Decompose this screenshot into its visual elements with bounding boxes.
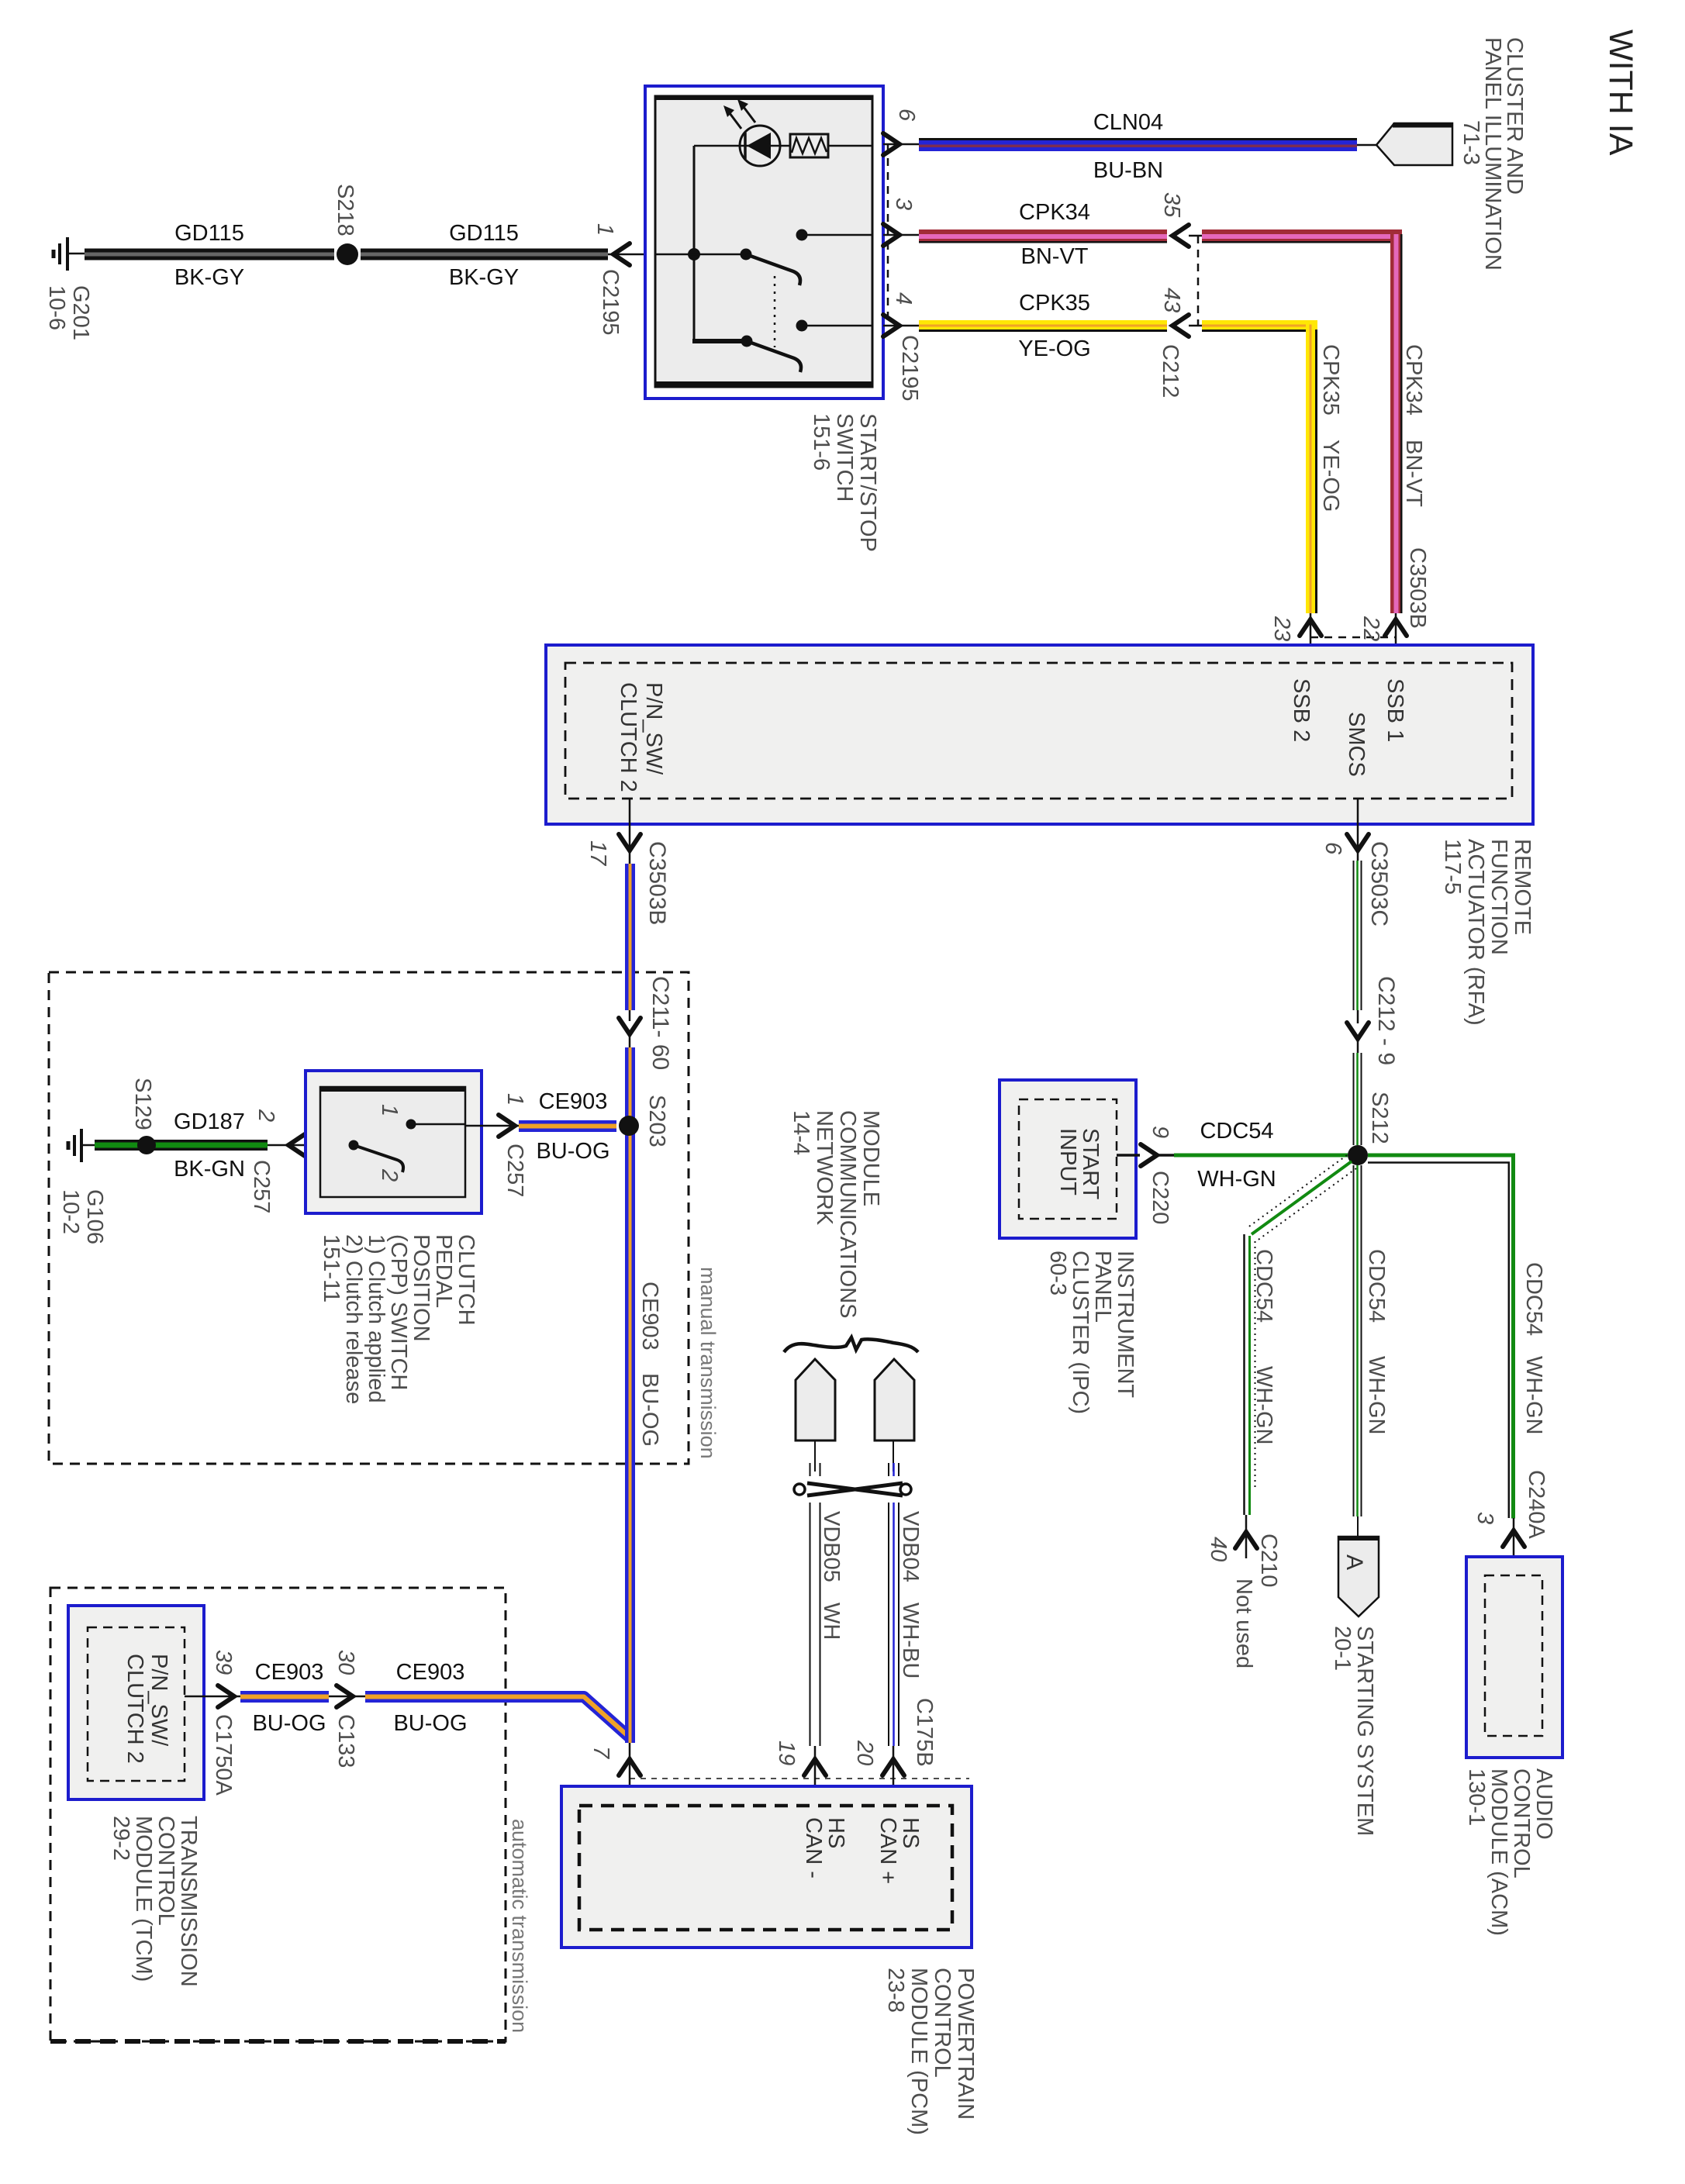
- label BK-GY B: [449, 265, 519, 290]
- wire internal left branch: [692, 146, 748, 341]
- inline connector C133 pin30 arrow: [329, 1685, 365, 1707]
- label CE903 h: [539, 1089, 608, 1114]
- svg-text:SSB 1: SSB 1: [1383, 678, 1407, 742]
- label C2195 left: [598, 269, 623, 335]
- svg-text:C133: C133: [333, 1714, 358, 1768]
- label pin 17: [585, 840, 610, 867]
- svg-text:23-8: 23-8: [883, 1968, 908, 2013]
- ground G201: [54, 237, 85, 271]
- clutch pedal position switch box: [306, 1071, 482, 1213]
- svg-text:(CPP) SWITCH: (CPP) SWITCH: [386, 1234, 411, 1390]
- mechanical link dotted: [774, 276, 776, 347]
- svg-text:2: 2: [254, 1109, 278, 1122]
- splice S203: [619, 1116, 639, 1136]
- svg-text:MODULE (TCM): MODULE (TCM): [131, 1816, 156, 1982]
- wire CE903 BU-OG segment A: [240, 1691, 329, 1703]
- svg-text:BU-OG: BU-OG: [536, 1139, 609, 1164]
- connector C2195 dashed line: [887, 144, 889, 326]
- pin 6 arrow: [883, 133, 919, 155]
- label REMOTE FUNCTION ACTUATOR (RFA) 117-5: [1440, 839, 1535, 1026]
- svg-text:TRANSMISSION: TRANSMISSION: [176, 1816, 201, 1987]
- svg-text:117-5: 117-5: [1440, 839, 1465, 895]
- svg-text:POWERTRAIN: POWERTRAIN: [953, 1968, 978, 2120]
- wire resistor to pin 6: [828, 145, 872, 147]
- label 2 inside: [377, 1168, 402, 1182]
- svg-text:BN-VT: BN-VT: [1401, 440, 1426, 507]
- svg-text:C240A: C240A: [1524, 1470, 1549, 1539]
- svg-text:C3503B: C3503B: [1405, 547, 1430, 629]
- svg-text:CONTROL: CONTROL: [930, 1968, 955, 2078]
- connector C3503B dashed line: [1310, 637, 1396, 639]
- label S218: [333, 184, 357, 236]
- label pin 1: [592, 223, 617, 236]
- wire CPK34 BN-VT segment B: [1202, 229, 1403, 613]
- label CLN04: [1093, 110, 1163, 135]
- label pin 19: [774, 1741, 799, 1765]
- svg-text:19: 19: [774, 1741, 799, 1765]
- label POWERTRAIN CONTROL MODULE (PCM) 23-8: [883, 1968, 978, 2135]
- label SMCS: [1344, 712, 1369, 777]
- svg-text:10-2: 10-2: [58, 1189, 83, 1234]
- wire CDC54 WH-GN to starting system: [1354, 1165, 1362, 1516]
- pin 40 arrow: [1235, 1515, 1257, 1558]
- svg-text:4: 4: [891, 292, 916, 305]
- svg-text:1: 1: [377, 1104, 402, 1116]
- svg-text:35: 35: [1159, 192, 1184, 218]
- svg-text:CE903: CE903: [255, 1660, 324, 1685]
- svg-text:1: 1: [502, 1093, 527, 1106]
- svg-text:C2195: C2195: [897, 335, 922, 401]
- svg-text:BN-VT: BN-VT: [1021, 244, 1089, 269]
- label pin 9: [1148, 1126, 1172, 1138]
- wire C3503C WH-GN lower: [1354, 1053, 1362, 1145]
- svg-text:S218: S218: [333, 184, 357, 236]
- LED indicator: [694, 99, 790, 166]
- svg-text:1: 1: [592, 223, 617, 236]
- svg-text:manual transmission: manual transmission: [696, 1267, 720, 1459]
- RFA dashed inner box: [565, 663, 1512, 799]
- label pin 43: [1159, 288, 1184, 312]
- svg-text:COMMUNICATIONS: COMMUNICATIONS: [835, 1110, 860, 1319]
- svg-text:POSITION: POSITION: [409, 1234, 433, 1342]
- svg-text:WH-GN: WH-GN: [1252, 1366, 1276, 1444]
- IPC dashed inner box: [1019, 1099, 1117, 1219]
- wire CLN04 BU-BN: [919, 138, 1357, 151]
- connector pentagon VDB04: [875, 1359, 914, 1440]
- svg-text:PEDAL: PEDAL: [431, 1234, 456, 1308]
- connector pentagon VDB05: [796, 1359, 835, 1440]
- svg-text:CPK35: CPK35: [1019, 291, 1090, 316]
- label S203: [644, 1095, 669, 1147]
- svg-text:CE903: CE903: [539, 1089, 608, 1114]
- svg-text:29-2: 29-2: [109, 1816, 133, 1861]
- svg-text:VDB04: VDB04: [898, 1511, 923, 1582]
- label CE903 A: [255, 1660, 324, 1685]
- label CPK35 A: [1019, 291, 1090, 316]
- svg-text:C257: C257: [502, 1144, 527, 1197]
- pin 19 arrow: [804, 1746, 826, 1806]
- svg-text:C3503B: C3503B: [644, 841, 670, 925]
- label pin 2 cpp: [254, 1109, 278, 1122]
- node junction pin1: [688, 248, 700, 260]
- pin 23 arrow: [1300, 613, 1321, 663]
- svg-text:3: 3: [891, 198, 916, 210]
- label C2195 right: [897, 335, 922, 401]
- svg-text:WITH IA: WITH IA: [1602, 29, 1639, 156]
- svg-text:SSB 2: SSB 2: [1289, 678, 1314, 742]
- svg-text:17: 17: [585, 840, 610, 867]
- svg-text:151-6: 151-6: [809, 413, 834, 471]
- pin 4 arrow: [883, 315, 919, 336]
- svg-text:C210: C210: [1256, 1534, 1281, 1587]
- svg-text:60-3: 60-3: [1045, 1251, 1070, 1296]
- label VDB04: [898, 1511, 923, 1582]
- svg-text:6: 6: [894, 109, 919, 122]
- svg-text:S212: S212: [1367, 1092, 1392, 1144]
- inline connector C211-60 arrow: [619, 1010, 641, 1047]
- ground G106: [68, 1129, 96, 1162]
- splice S218: [337, 243, 358, 265]
- svg-text:NETWORK: NETWORK: [812, 1110, 837, 1226]
- svg-text:MODULE: MODULE: [858, 1110, 883, 1206]
- svg-text:SWITCH: SWITCH: [832, 413, 857, 502]
- label START/STOP SWITCH 151-6: [809, 413, 880, 552]
- svg-text:BU-OG: BU-OG: [637, 1373, 662, 1447]
- label C133: [333, 1714, 358, 1768]
- svg-text:6: 6: [1321, 842, 1345, 855]
- PCM dashed inner box: [579, 1806, 952, 1930]
- svg-text:BU-BN: BU-BN: [1093, 158, 1163, 183]
- svg-text:AUDIO: AUDIO: [1531, 1768, 1556, 1840]
- wire VDB05 WH: [810, 1440, 820, 1746]
- label WH: [819, 1603, 844, 1640]
- wire CE903 BU-OG horizontal: [519, 1120, 616, 1132]
- label BU-OG A: [252, 1711, 326, 1736]
- svg-text:71-3: 71-3: [1459, 120, 1483, 165]
- wire CPK34 BN-VT segment A: [919, 229, 1167, 243]
- label VDB05: [819, 1511, 844, 1582]
- label C212: [1158, 344, 1183, 398]
- label C3503B right: [1405, 547, 1430, 629]
- svg-text:43: 43: [1159, 288, 1184, 312]
- connector C212 dashed line: [1197, 236, 1200, 326]
- svg-text:23: 23: [1269, 616, 1294, 641]
- svg-text:BK-GY: BK-GY: [174, 265, 244, 290]
- pin 2 arrow C257: [268, 1134, 354, 1156]
- svg-text:CAN -: CAN -: [801, 1817, 826, 1879]
- pin 20 arrow: [882, 1746, 904, 1806]
- connector to cluster illumination: [1357, 123, 1452, 165]
- wire CDC54 WH-GN diagonal: [1247, 1155, 1356, 1241]
- svg-text:A: A: [1341, 1554, 1367, 1570]
- svg-text:WH-GN: WH-GN: [1197, 1167, 1276, 1192]
- pin 3 arrow ACM: [1503, 1518, 1524, 1575]
- label INSTRUMENT PANEL CLUSTER (IPC) 60-3: [1045, 1251, 1138, 1414]
- svg-text:CE903: CE903: [396, 1660, 465, 1685]
- svg-text:G106: G106: [82, 1189, 107, 1244]
- label CPK34 A: [1019, 200, 1090, 225]
- svg-text:Not used: Not used: [1231, 1578, 1256, 1668]
- label C212 - 9: [1373, 976, 1399, 1065]
- splice S129: [137, 1136, 156, 1154]
- label A: [1341, 1554, 1367, 1570]
- svg-text:39: 39: [211, 1650, 236, 1675]
- label S129: [130, 1078, 155, 1130]
- svg-text:BK-GN: BK-GN: [174, 1157, 245, 1182]
- label CE903 vertical: [637, 1282, 662, 1351]
- svg-text:C212: C212: [1158, 344, 1183, 398]
- pin 9 arrow: [1117, 1144, 1157, 1166]
- pin 7 arrow: [619, 1743, 641, 1806]
- label BU-OG vertical: [637, 1373, 662, 1447]
- svg-text:WH-GN: WH-GN: [1364, 1356, 1389, 1434]
- label pin 23: [1269, 616, 1294, 641]
- pin 22 arrow: [1385, 613, 1407, 663]
- label C210: [1256, 1534, 1281, 1587]
- label SSB 1: [1383, 678, 1407, 742]
- label P/N_SW/ CLUTCH 2 (TCM): [123, 1654, 171, 1764]
- label WH-GN ss: [1364, 1356, 1389, 1434]
- label pin 3: [891, 198, 916, 210]
- label automatic transmission: [508, 1819, 531, 2033]
- svg-text:SMCS: SMCS: [1344, 712, 1369, 777]
- label manual transmission: [696, 1267, 720, 1459]
- wire CPK35 YE-OG segment B: [1202, 320, 1317, 613]
- svg-text:CLUSTER (IPC): CLUSTER (IPC): [1068, 1251, 1093, 1414]
- label pin 4: [891, 292, 916, 305]
- svg-text:WH-GN: WH-GN: [1521, 1356, 1546, 1434]
- transmission control module box: [68, 1606, 204, 1799]
- svg-text:2: 2: [377, 1168, 402, 1182]
- wire CDC54 WH-GN to C210: [1245, 1234, 1255, 1515]
- svg-text:GD187: GD187: [174, 1109, 245, 1134]
- svg-text:INPUT: INPUT: [1055, 1128, 1080, 1196]
- svg-text:ACTUATOR (RFA): ACTUATOR (RFA): [1463, 839, 1488, 1026]
- inline connector C212 pin35 arrow: [1172, 225, 1203, 247]
- svg-text:130-1: 130-1: [1464, 1768, 1489, 1826]
- svg-text:C220: C220: [1148, 1171, 1172, 1224]
- pin 39 arrow: [185, 1685, 240, 1707]
- svg-text:151-11: 151-11: [319, 1234, 344, 1302]
- label CLUTCH PEDAL POSITION switch block: [319, 1234, 478, 1404]
- svg-text:C2195: C2195: [598, 269, 623, 335]
- svg-text:C212 - 9: C212 - 9: [1373, 976, 1399, 1065]
- svg-text:20-1: 20-1: [1330, 1626, 1355, 1671]
- svg-text:CPK34: CPK34: [1401, 344, 1426, 416]
- label BU-OG B: [393, 1711, 467, 1736]
- svg-text:INSTRUMENT: INSTRUMENT: [1113, 1251, 1138, 1398]
- label BN-VT vertical: [1401, 440, 1426, 507]
- svg-text:22: 22: [1359, 616, 1383, 641]
- svg-text:automatic transmission: automatic transmission: [508, 1819, 531, 2033]
- label C3503B left: [644, 841, 670, 925]
- svg-text:10-6: 10-6: [44, 285, 69, 330]
- label GD115 A: [174, 221, 244, 246]
- svg-text:7: 7: [589, 1746, 613, 1760]
- label HS CAN +: [875, 1817, 923, 1884]
- switch contact upper: [741, 229, 873, 286]
- wire CDC54 WH-GN to ACM: [1368, 1154, 1515, 1519]
- CPP switch contact: [349, 1120, 466, 1173]
- label G106 10-2: [58, 1189, 107, 1244]
- svg-text:C257: C257: [249, 1160, 274, 1213]
- svg-text:C3503C: C3503C: [1366, 841, 1392, 926]
- svg-text:S203: S203: [644, 1095, 669, 1147]
- label WH-BU: [898, 1603, 923, 1679]
- svg-text:PANEL: PANEL: [1090, 1251, 1115, 1323]
- label STARTING SYSTEM 20-1: [1330, 1626, 1377, 1836]
- resistor: [790, 134, 828, 157]
- svg-text:CLUTCH 2: CLUTCH 2: [616, 682, 641, 792]
- TCM dashed inner box: [88, 1627, 185, 1781]
- label CLUSTER AND PANEL ILLUMINATION: [1480, 37, 1527, 271]
- svg-text:MODULE (PCM): MODULE (PCM): [906, 1968, 931, 2135]
- svg-text:FUNCTION: FUNCTION: [1486, 839, 1511, 955]
- wire CE903 BU-OG segment B: [365, 1697, 630, 1738]
- wire CE903 BU-OG vertical lower: [625, 1724, 635, 1743]
- wire pin 1 internal: [655, 254, 747, 256]
- svg-text:START: START: [1078, 1128, 1103, 1200]
- wire GD115 BK-GY segment B: [361, 249, 608, 260]
- svg-text:S129: S129: [130, 1078, 155, 1130]
- inline connector C212-9 arrow: [1347, 1010, 1369, 1053]
- svg-text:REMOTE: REMOTE: [1510, 839, 1535, 935]
- label 71-3: [1459, 120, 1483, 165]
- svg-text:CDC54: CDC54: [1521, 1262, 1546, 1336]
- label Not used: [1231, 1578, 1256, 1668]
- svg-text:YE-OG: YE-OG: [1018, 336, 1090, 361]
- label CDC54 ss: [1364, 1249, 1389, 1323]
- label BU-OG h: [536, 1139, 609, 1164]
- label CPK35 vertical: [1318, 344, 1343, 416]
- svg-text:VDB05: VDB05: [819, 1511, 844, 1582]
- wire VDB04 WH-BU: [889, 1440, 899, 1746]
- label pin 22: [1359, 616, 1383, 641]
- label BU-BN: [1093, 158, 1163, 183]
- svg-text:HS: HS: [824, 1817, 848, 1848]
- label C257 right: [502, 1144, 527, 1197]
- svg-text:1) Clutch applied: 1) Clutch applied: [364, 1234, 388, 1403]
- svg-text:CE903: CE903: [637, 1282, 662, 1351]
- svg-text:9: 9: [1148, 1126, 1172, 1138]
- pin 3 arrow: [883, 224, 919, 246]
- label WH-GN c210: [1252, 1366, 1276, 1444]
- wire CE903 BU-OG vertical upper: [625, 1047, 635, 1737]
- start/stop switch box outer: [645, 86, 883, 399]
- svg-text:CONTROL: CONTROL: [154, 1816, 178, 1926]
- pin 6 RFA arrow: [1347, 799, 1369, 861]
- powertrain control module box: [561, 1786, 972, 1948]
- svg-text:CDC54: CDC54: [1200, 1119, 1273, 1144]
- label YE-OG vertical: [1318, 440, 1343, 512]
- label pin 30: [333, 1650, 358, 1675]
- manual transmission dashed box: [49, 972, 689, 1464]
- label pin 3 acm: [1473, 1512, 1497, 1524]
- pin 1 arrow C2195: [608, 243, 645, 265]
- label C3503C: [1366, 841, 1392, 926]
- svg-text:GD115: GD115: [174, 221, 244, 246]
- svg-text:3: 3: [1473, 1512, 1497, 1524]
- label S212: [1367, 1092, 1392, 1144]
- label C240A: [1524, 1470, 1549, 1539]
- audio control module box: [1466, 1557, 1562, 1758]
- svg-text:YE-OG: YE-OG: [1318, 440, 1343, 512]
- label pin 6: [894, 109, 919, 122]
- svg-text:C1750A: C1750A: [211, 1714, 236, 1796]
- pin 1 arrow C257 right: [465, 1115, 519, 1137]
- label C211- 60: [647, 976, 673, 1070]
- svg-text:CDC54: CDC54: [1364, 1249, 1389, 1323]
- label pin 20: [852, 1740, 877, 1765]
- title WITH IA: [1602, 29, 1639, 156]
- label C1750A: [211, 1714, 236, 1796]
- svg-text:20: 20: [852, 1740, 877, 1765]
- svg-text:G201: G201: [68, 285, 93, 340]
- svg-text:30: 30: [333, 1650, 358, 1675]
- svg-text:14-4: 14-4: [789, 1110, 813, 1155]
- svg-text:P/N_SW/: P/N_SW/: [147, 1654, 171, 1747]
- svg-text:HS: HS: [898, 1817, 923, 1848]
- connector C175B dashed face: [630, 1778, 969, 1779]
- svg-text:GD115: GD115: [449, 221, 519, 246]
- svg-text:WH: WH: [819, 1603, 844, 1640]
- label GD115 B: [449, 221, 519, 246]
- svg-text:P/N_SW/: P/N_SW/: [641, 682, 666, 775]
- svg-text:CDC54: CDC54: [1252, 1249, 1276, 1323]
- svg-text:BU-OG: BU-OG: [393, 1711, 467, 1736]
- label WH-GN acm: [1521, 1356, 1546, 1434]
- label G201 10-6: [44, 285, 93, 340]
- label GD187: [174, 1109, 245, 1134]
- remote function actuator box: [546, 645, 1533, 824]
- label CDC54 acm: [1521, 1262, 1546, 1336]
- label BK-GN: [174, 1157, 245, 1182]
- label CDC54 h: [1200, 1119, 1273, 1144]
- label AUDIO CONTROL MODULE (ACM) 130-1: [1464, 1768, 1556, 1936]
- svg-text:CPK34: CPK34: [1019, 200, 1090, 225]
- wire C3503B BU-OG: [625, 864, 635, 1010]
- switch contact lower: [741, 320, 873, 373]
- wire C3503C WH-GN: [1354, 861, 1362, 1010]
- svg-text:C175B: C175B: [912, 1698, 937, 1767]
- connector A starting system: [1338, 1516, 1379, 1616]
- label CE903 B: [396, 1660, 465, 1685]
- label pin 7: [589, 1746, 613, 1760]
- label YE-OG A: [1018, 336, 1090, 361]
- label CDC54 c210: [1252, 1249, 1276, 1323]
- svg-text:WH-BU: WH-BU: [898, 1603, 923, 1679]
- svg-text:CAN +: CAN +: [875, 1817, 900, 1884]
- svg-text:CLUTCH: CLUTCH: [454, 1234, 478, 1326]
- label HS CAN -: [801, 1817, 848, 1879]
- label P/N_SW/ CLUTCH 2 (RFA): [616, 682, 666, 792]
- label C220: [1148, 1171, 1172, 1224]
- label MODULE COMMUNICATIONS NETWORK 14-4: [789, 1110, 883, 1319]
- svg-text:CLN04: CLN04: [1093, 110, 1163, 135]
- automatic transmission dashed box: [50, 1588, 506, 2041]
- wire CDC54 WH-GN to S212: [1157, 1154, 1348, 1158]
- svg-text:START/STOP: START/STOP: [855, 413, 880, 552]
- start/stop switch box inner: [655, 96, 872, 387]
- label pin 1 cpp: [502, 1093, 527, 1106]
- svg-text:MODULE (ACM): MODULE (ACM): [1486, 1768, 1511, 1936]
- label CPK34 vertical: [1401, 344, 1426, 416]
- pin 17 arrow: [619, 799, 641, 864]
- label pin 39: [211, 1650, 236, 1675]
- label TRANSMISSION CONTROL MODULE (TCM) 29-2: [109, 1816, 201, 1987]
- label pin 6 RFA: [1321, 842, 1345, 855]
- twisted pair crossover: [792, 1476, 915, 1503]
